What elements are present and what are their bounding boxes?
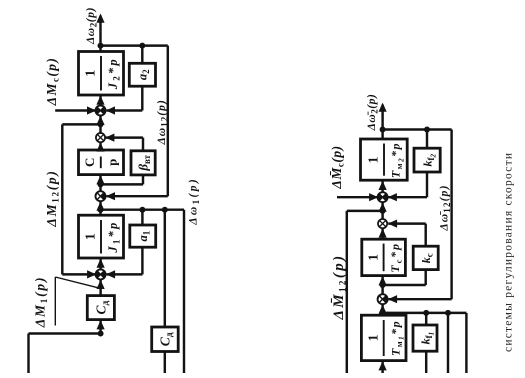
svg-text:1: 1 <box>83 70 98 77</box>
svg-text:J2*p: J2*p <box>106 57 122 90</box>
svg-text:Tс*p: Tс*p <box>388 242 404 272</box>
svg-text:C: C <box>82 158 97 167</box>
svg-text:системы регулирования скорости: системы регулирования скорости <box>503 153 515 352</box>
svg-text:ΔM̄с(p): ΔM̄с(p) <box>329 145 346 189</box>
svg-text:1: 1 <box>366 254 381 261</box>
svg-text:1: 1 <box>83 233 98 240</box>
svg-text:1: 1 <box>366 157 381 164</box>
svg-text:J1*p: J1*p <box>106 221 122 254</box>
svg-text:p: p <box>105 159 119 166</box>
svg-text:1: 1 <box>366 334 381 341</box>
